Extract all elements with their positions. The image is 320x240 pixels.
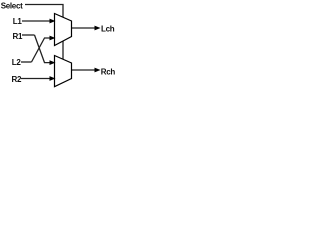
wire Lch output (72, 27, 97, 29)
arrowhead Lch (95, 26, 101, 31)
arrowhead R2 into U2 (50, 76, 56, 81)
svg-text:Select: Select (1, 2, 23, 11)
wire R2 (21, 78, 51, 80)
svg-text:Rch: Rch (101, 67, 116, 76)
wire R1 diagonal (35, 35, 52, 63)
arrowhead R1 into U2 (50, 60, 56, 65)
wire L2 horizontal (21, 61, 32, 63)
svg-text:R1: R1 (13, 32, 23, 41)
arrowhead L1 into U1 (50, 19, 56, 24)
svg-text:Lch: Lch (101, 25, 115, 34)
wire Rch output (72, 69, 97, 71)
svg-text:L1: L1 (13, 17, 23, 26)
svg-text:R2: R2 (12, 75, 22, 84)
wire R1 horizontal (22, 34, 35, 36)
arrowhead Rch (95, 68, 101, 73)
wire L1 (22, 20, 51, 22)
arrowhead L2 into U1 (50, 36, 56, 41)
mux U2 (right channel) (55, 56, 72, 87)
wire select between muxes (62, 41, 64, 60)
mux U1 (left channel) (55, 14, 72, 46)
wire L2 diagonal (32, 38, 52, 62)
svg-text:L2: L2 (12, 58, 22, 67)
wire Select horizontal+down (25, 5, 63, 18)
